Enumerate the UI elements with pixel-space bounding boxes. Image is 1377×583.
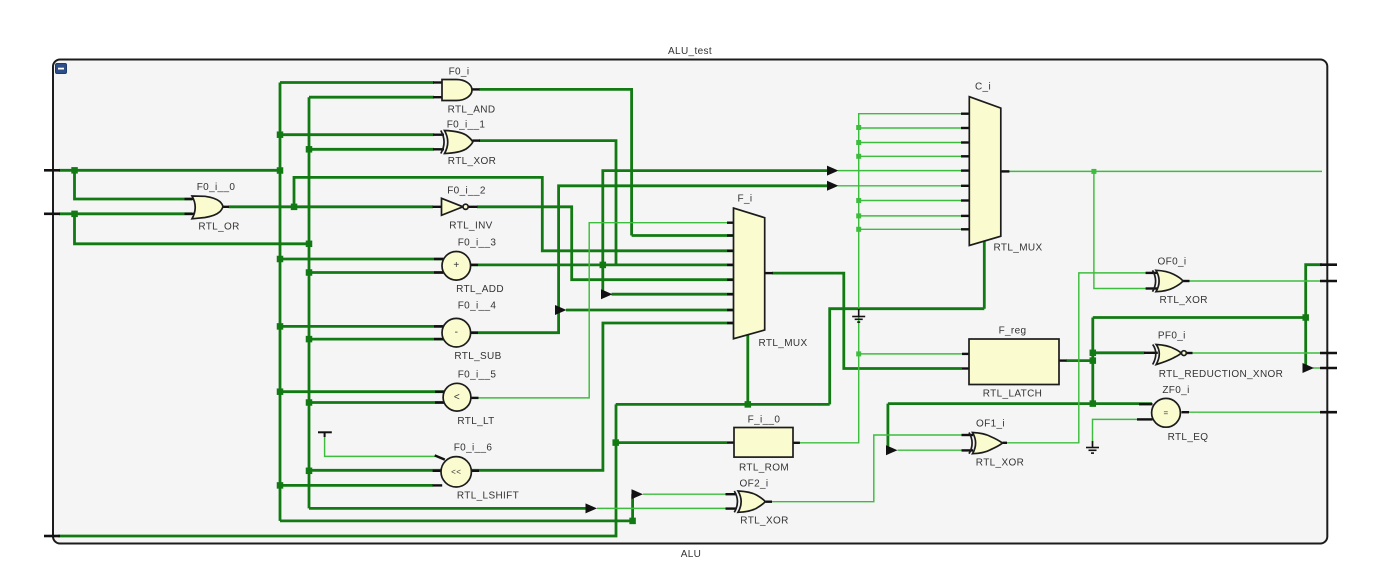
pin stub LSHIFT in2	[433, 470, 442, 472]
wire bus V309 input2	[308, 97, 311, 508]
rom F_i__0	[734, 428, 793, 458]
svg-text:F0_i__1: F0_i__1	[447, 120, 486, 131]
arrowhead OF1 in2	[886, 445, 898, 455]
wire ROM out light	[800, 114, 962, 443]
wire V1305 to out port	[1306, 265, 1322, 368]
wire AND out	[479, 89, 632, 235]
wire net B port2 horizontal to OR in2	[59, 212, 192, 215]
wire input1 to AND in1	[280, 81, 434, 84]
svg-text:+: +	[453, 260, 459, 271]
pin stub C_i in5	[961, 169, 970, 171]
pin stub INV out	[468, 206, 478, 208]
svg-text:RTL_LATCH: RTL_LATCH	[983, 389, 1042, 400]
pin stub SUB in1	[434, 325, 444, 327]
wire F_i out to F_reg	[772, 273, 962, 368]
xor-gate OF0_i body	[1156, 270, 1183, 291]
wire C_i tap 7	[859, 200, 961, 202]
wire input2 to XOR in2	[309, 148, 434, 151]
pin stub C_i out	[1001, 170, 1010, 172]
svg-text:<<: <<	[451, 467, 461, 476]
junction port2	[71, 211, 78, 218]
pin stub OR out	[223, 206, 230, 208]
junction H404B cross	[1090, 400, 1097, 407]
junction C_i tap9	[856, 227, 861, 232]
svg-text:F0_i: F0_i	[449, 67, 470, 78]
pin stub F_i in6	[727, 293, 735, 295]
wire input1 to LSHIFT in3	[280, 484, 433, 487]
pin stub F_i out	[765, 272, 773, 274]
inverter bubble	[463, 204, 468, 209]
port stub right F	[1320, 263, 1337, 266]
junction ROM tap	[612, 439, 619, 446]
pin stub F_i in1	[727, 221, 735, 223]
svg-text:F_i: F_i	[738, 194, 753, 205]
wire ROM net V615	[58, 404, 616, 536]
junction V309 SUB	[306, 336, 313, 343]
svg-text:F0_i__5: F0_i__5	[458, 370, 497, 381]
wire OF0 in2 branch light	[1094, 171, 1146, 288]
wire C_i tap 8	[859, 215, 961, 217]
pin stub OR in1	[185, 198, 196, 200]
port stub right OF0	[1320, 280, 1337, 283]
wire AND branch mux in2	[632, 234, 734, 237]
junction V280 LSHIFT	[277, 482, 284, 489]
junction V1305	[1302, 314, 1309, 321]
pin stub SUB in2	[434, 338, 444, 340]
module frame ALU	[53, 60, 1327, 544]
wire C_i select	[983, 241, 986, 309]
junction V280 LT	[277, 388, 284, 395]
wire F_reg net to right	[1093, 316, 1306, 319]
xor input arc OF1_i	[969, 433, 972, 454]
svg-text:F0_i__4: F0_i__4	[458, 301, 497, 312]
wire SUB out	[471, 186, 828, 333]
add-circle F0_i__3	[442, 251, 471, 280]
port stub input2	[44, 213, 60, 216]
junction V280 XOR	[277, 131, 284, 138]
junction port1	[71, 167, 78, 174]
junction C_i tap2	[856, 125, 861, 130]
svg-text:RTL_ADD: RTL_ADD	[456, 284, 504, 295]
pin stub LT in1	[435, 391, 445, 393]
pin stub F_reg out	[1059, 359, 1067, 361]
mux C_i	[969, 97, 1001, 246]
pin stub F_i in2	[727, 234, 735, 236]
wire F_reg net vertical	[1091, 318, 1094, 404]
junction V309 LSHIFT	[306, 468, 313, 475]
pin stub C_i in8	[961, 215, 970, 217]
wire OF2 in2 light part	[597, 507, 727, 509]
wire input1 to ADD in1	[280, 258, 443, 261]
junction C_i tap8	[856, 213, 861, 218]
wire C_i tap 3	[859, 142, 961, 144]
pin stub OF0 in1	[1146, 272, 1158, 274]
wire const to LSHIFT light	[325, 434, 436, 456]
arrowhead F_i in7	[555, 305, 567, 315]
junction V280 SUB	[277, 323, 284, 330]
xor input arc OF2_i	[734, 491, 737, 512]
svg-text:F0_i__2: F0_i__2	[447, 186, 486, 197]
pin stub ROM out	[793, 442, 800, 444]
junction C_i tap7	[856, 198, 861, 203]
latch F_reg	[969, 339, 1059, 385]
svg-text:F0_i__6: F0_i__6	[454, 443, 493, 454]
svg-text:PF0_i: PF0_i	[1158, 330, 1186, 341]
pin stub F_i in3	[727, 250, 735, 252]
svg-text:OF1_i: OF1_i	[976, 419, 1005, 430]
wire net A port1 horizontal	[59, 169, 280, 172]
wire input1 to LT in1	[280, 390, 444, 393]
pin stub LSHIFT in1	[435, 455, 445, 459]
svg-text:ZF0_i: ZF0_i	[1162, 385, 1189, 396]
eq-circle ZF0_i	[1152, 398, 1181, 427]
pin stub ADD in2	[434, 271, 444, 273]
svg-text:RTL_LSHIFT: RTL_LSHIFT	[457, 490, 519, 501]
arrowhead C_i in5	[827, 166, 839, 176]
wire ADD branch up to C_i	[603, 171, 828, 265]
pin stub C_i in3	[961, 141, 970, 143]
wire OF0 out light	[1189, 280, 1322, 282]
svg-text:F0_i__0: F0_i__0	[197, 182, 236, 193]
arrowhead F_i in6	[601, 289, 613, 299]
arrowhead OF2 in2	[586, 503, 598, 513]
pin stub OF2 in2	[726, 507, 737, 509]
pin stub XOR out	[473, 139, 481, 141]
wire C_i tap 4	[859, 155, 961, 157]
wire OF1 in2 light from arrow	[898, 449, 963, 451]
svg-text:RTL_EQ: RTL_EQ	[1168, 432, 1209, 443]
wire OR output to INV	[229, 205, 434, 208]
svg-text:RTL_XOR: RTL_XOR	[976, 458, 1024, 469]
wire ADD branch arrow to mux in6	[601, 265, 604, 294]
wire input2 to AND in2	[309, 96, 434, 99]
xnor bubble	[1182, 351, 1187, 356]
pin stub C_i in1	[961, 112, 970, 114]
wire input2 to LT in2	[309, 401, 444, 404]
junction V309 ADD	[306, 269, 313, 276]
svg-text:RTL_MUX: RTL_MUX	[994, 243, 1043, 254]
wire OR branch up	[294, 177, 734, 250]
arrowhead right port F2	[1303, 363, 1315, 373]
constant tie T	[318, 432, 332, 437]
junction C_i tap4	[856, 154, 861, 159]
wire C_i in6 light tail	[838, 185, 961, 187]
pin stub ADD out	[471, 264, 479, 266]
junction F_i select on H403	[745, 401, 752, 408]
collapse icon	[56, 64, 67, 74]
svg-text:F_i__0: F_i__0	[748, 415, 781, 426]
pin stub LSHIFT in3	[433, 484, 443, 486]
wire F_reg gate input light	[859, 353, 962, 355]
pin stub ROM in	[727, 441, 735, 443]
wire input2 to LSHIFT in2	[309, 469, 444, 472]
wire net B branch down	[75, 214, 310, 244]
svg-text:RTL_ROM: RTL_ROM	[739, 463, 789, 474]
arrowhead OF2 in1	[632, 489, 644, 499]
wire OF2 out light	[771, 435, 962, 502]
svg-text:RTL_LT: RTL_LT	[457, 416, 494, 427]
wire V829 up	[830, 309, 985, 405]
port stub right F2	[1320, 367, 1337, 370]
pin stub AND out	[472, 88, 480, 90]
wire input1 to XOR in1	[280, 133, 434, 136]
pin stub F_i in5	[727, 279, 735, 281]
svg-text:F_reg: F_reg	[999, 326, 1027, 337]
pin stub C_i in7	[961, 199, 970, 201]
wire bus V280 input1	[279, 83, 282, 521]
junction ADD branch	[600, 262, 607, 269]
pin stub XOR in1	[433, 133, 444, 135]
xor-gate OF1_i body	[973, 433, 1003, 454]
lshift-circle F0_i__6	[441, 457, 471, 487]
pin stub OF1 in2	[962, 449, 974, 451]
svg-text:-: -	[455, 327, 459, 338]
wire H404B to EQ in1	[888, 402, 1152, 405]
pin stub F_i in8	[727, 322, 735, 324]
wire LT out light	[471, 223, 734, 398]
mux F_i	[734, 208, 765, 339]
wire input1 to SUB in1	[280, 325, 443, 328]
wire input2 to ADD in2	[309, 271, 443, 274]
pin stub C_i in6	[961, 185, 970, 187]
pin stub PF0 in	[1144, 352, 1158, 354]
lt-circle F0_i__5	[443, 383, 471, 411]
pin stub AND in1	[433, 81, 442, 83]
svg-text:RTL_AND: RTL_AND	[448, 105, 496, 116]
wire OF2 in1 light from arrow	[643, 493, 727, 495]
wire mux in6 horizontal	[612, 293, 735, 296]
pin stub C_i in2	[961, 127, 970, 129]
wire ADD out to mux in4	[471, 263, 734, 266]
pin stub SUB out	[471, 332, 479, 334]
wire INV out to mux in5	[477, 207, 734, 280]
svg-text:RTL_XOR: RTL_XOR	[1159, 295, 1207, 306]
wire OF1 out light	[1007, 273, 1147, 443]
xor input arc F0_i__1	[441, 131, 444, 154]
port stub output O	[44, 535, 60, 538]
pin stub F_i in7	[727, 309, 735, 311]
pin stub OF1 out	[1003, 442, 1008, 444]
pin stub EQ in1	[1139, 403, 1153, 405]
pin stub OR in2	[185, 213, 196, 215]
junction V309 XOR	[306, 146, 313, 153]
junction V280 port1	[277, 167, 284, 174]
wire bottom H521	[280, 520, 633, 523]
wire F_i select	[746, 334, 749, 404]
xor-gate F0_i__1 body	[445, 131, 473, 154]
junction V280 ADD	[277, 256, 284, 263]
pin stub OF2 out	[765, 501, 772, 503]
svg-text:OF0_i: OF0_i	[1158, 257, 1187, 268]
or-gate F0_i__0	[192, 196, 223, 219]
wire input2 to OF2 dark part	[309, 507, 586, 510]
junction F_reg gate tap	[856, 351, 861, 356]
svg-text:ALU_test: ALU_test	[668, 46, 712, 57]
arrowhead C_i in6	[827, 181, 839, 191]
pin stub LSHIFT out	[471, 470, 479, 472]
pin stub PF0 out	[1186, 352, 1192, 354]
inverter F0_i__2	[442, 198, 464, 215]
pin stub INV in	[433, 206, 442, 208]
svg-text:ALU: ALU	[681, 549, 702, 560]
wire C_i tap 2	[859, 127, 961, 129]
junction C_i out tap	[1091, 169, 1096, 174]
pin stub OF0 in2	[1146, 287, 1158, 289]
pin stub ADD in1	[434, 258, 444, 260]
pin stub XOR in2	[433, 148, 444, 150]
wire OF2 in1 riser	[631, 494, 634, 521]
pin stub OF1 in1	[962, 434, 974, 436]
svg-text:=: =	[1163, 408, 1168, 417]
svg-text:RTL_INV: RTL_INV	[449, 221, 492, 232]
port stub right PF0	[1320, 352, 1337, 355]
xnor input arc PF0_i	[1153, 345, 1156, 365]
pin stub LT out	[471, 397, 479, 399]
wire XOR out	[479, 141, 616, 265]
xor-gate OF2_i body	[738, 491, 765, 512]
ground G2	[1086, 441, 1099, 453]
pin stub LT in2	[435, 401, 445, 403]
svg-text:RTL_REDUCTION_XNOR: RTL_REDUCTION_XNOR	[1159, 369, 1283, 380]
pin stub EQ in2	[1137, 418, 1153, 420]
svg-text:F0_i__3: F0_i__3	[458, 238, 497, 249]
pin stub C_i in4	[961, 155, 970, 157]
junction OR branch	[291, 204, 298, 211]
wire net A branch to OR in1	[75, 170, 193, 199]
port stub input1	[44, 169, 60, 172]
xnor-gate PF0_i body	[1156, 345, 1181, 365]
wire input2 to SUB in2	[309, 338, 443, 341]
pin stub C_i in9	[961, 228, 970, 230]
svg-text:<: <	[454, 392, 460, 403]
wire to PF0 input	[1093, 351, 1145, 354]
ground G1	[852, 309, 865, 322]
wire F_reg out	[1066, 359, 1093, 362]
junction F_reg out	[1090, 357, 1097, 364]
svg-text:RTL_XOR: RTL_XOR	[740, 516, 788, 527]
wire ROM net H403A	[616, 403, 830, 406]
svg-text:RTL_OR: RTL_OR	[198, 222, 239, 233]
wire C_i tap 9	[859, 228, 961, 230]
wire EQ in2 light	[1093, 419, 1141, 446]
junction C_i tap3	[856, 140, 861, 145]
wire C_i out light	[1008, 170, 1322, 172]
svg-text:OF2_i: OF2_i	[740, 479, 769, 490]
wire arrow gap right port	[1313, 367, 1322, 369]
wire C_i in5 light tail	[838, 170, 961, 172]
wire EQ out light	[1189, 411, 1323, 413]
wire mux in7 horizontal	[566, 309, 734, 312]
pin stub OF2 in1	[726, 493, 737, 495]
svg-text:C_i: C_i	[975, 82, 991, 93]
xor input arc OF0_i	[1153, 270, 1156, 291]
pin stub F_i in4	[727, 264, 735, 266]
pin stub F_reg data	[962, 367, 970, 369]
junction PF0 tap	[1090, 350, 1097, 357]
pin stub EQ out	[1182, 411, 1190, 413]
junction V309 portB	[306, 241, 313, 248]
junction V309 LT	[306, 399, 313, 406]
wire LSHIFT out	[471, 323, 734, 470]
pin stub F_reg gate	[962, 353, 970, 355]
port stub right ZF0	[1320, 411, 1337, 414]
svg-text:RTL_SUB: RTL_SUB	[454, 351, 501, 362]
wire PF0 out light	[1192, 352, 1322, 354]
pin stub OF0 out	[1183, 280, 1190, 282]
wire ROM input	[616, 441, 727, 444]
svg-text:RTL_XOR: RTL_XOR	[448, 156, 496, 167]
pin stub AND in2	[433, 96, 442, 98]
and-gate F0_i	[442, 80, 472, 101]
junction OF2 riser on H521	[629, 518, 636, 525]
svg-text:RTL_MUX: RTL_MUX	[759, 338, 808, 349]
wire V887 corner	[887, 404, 890, 451]
sub-circle F0_i__4	[442, 318, 471, 347]
